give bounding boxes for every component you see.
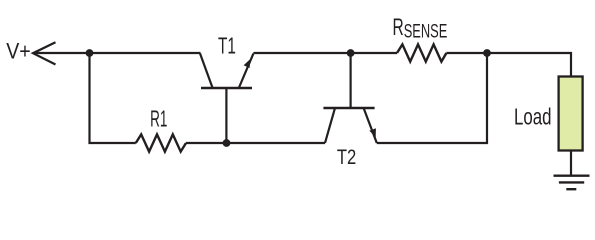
wire node C to RSENSE xyxy=(351,52,397,54)
svg-text:RSENSE: RSENSE xyxy=(393,14,448,43)
wire node B to T2 collector lead xyxy=(227,142,326,144)
junction node A (V+ / R1) xyxy=(86,49,94,57)
transistor T2 xyxy=(323,53,376,143)
resistor R1 xyxy=(136,134,186,151)
ground xyxy=(554,176,590,190)
junction node C (T1 emitter / T2 base / RSENSE) xyxy=(347,49,355,57)
svg-text:T1: T1 xyxy=(218,33,236,59)
wire R1 to node B xyxy=(186,142,227,144)
svg-text:V+: V+ xyxy=(6,39,31,64)
wire T1 emitter to node C xyxy=(253,52,350,54)
junction node B (R1 / T1 base / T2 collector) xyxy=(223,139,231,147)
wire node D to load xyxy=(487,53,571,77)
svg-text:R1: R1 xyxy=(150,106,167,132)
wire RSENSE to node D xyxy=(446,52,487,54)
resistor RSENSE xyxy=(397,44,446,61)
svg-text:T2: T2 xyxy=(337,146,356,169)
junction node D (RSENSE / T2 emitter / load) xyxy=(483,49,491,57)
load RL xyxy=(559,77,583,151)
transistor T1 xyxy=(200,53,253,143)
wire T2 emitter up to node D xyxy=(377,53,487,143)
V+ supply arrow xyxy=(33,42,56,64)
wire load to ground xyxy=(570,151,572,176)
svg-text:Load: Load xyxy=(514,104,552,130)
wire node A down and right to R1 xyxy=(90,53,136,143)
wire top rail V+ to T1 collector lead xyxy=(34,52,201,54)
